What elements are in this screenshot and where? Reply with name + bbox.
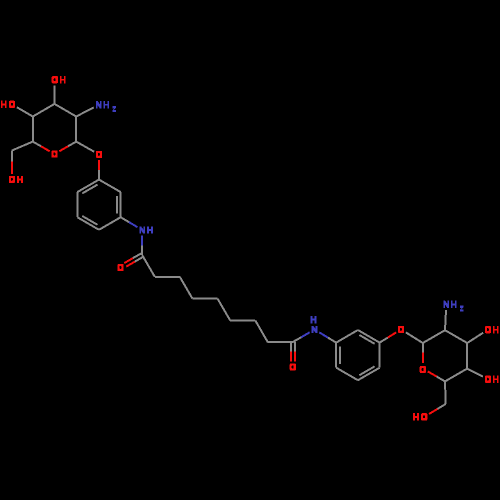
wire: sugar2 C2'-C3' (445, 330, 467, 343)
node: N of left NH2 (96, 101, 98, 108)
wire: C6-OH bond (11, 151, 13, 162)
wire: benzene2 edge b-ll (336, 368, 358, 381)
wire: benzene1 edge 5-6 (76, 192, 78, 217)
wire: C4-OH stereo bond (17, 107, 33, 116)
node: H of top-left OH (60, 76, 62, 83)
wire: benzene2 double bond n-ll (339, 346, 341, 364)
wire: NH-phenyl bond right (319, 332, 328, 337)
wire: benzene1 double bond 4-5 (82, 216, 97, 225)
wire: phenyl-O bond right (380, 338, 388, 343)
wire: benzene2 edge lr-b (358, 368, 380, 381)
wire: chain bond 8 (268, 341, 293, 343)
node: H of left NH2 (103, 101, 105, 108)
wire: chain bond 4 (192, 298, 217, 300)
node: O of right C3' OH (485, 326, 491, 333)
wire: C1-O glycosidic stereo bond (76, 142, 94, 152)
node: O of bottom-right HO (421, 413, 427, 420)
wire: sugar1 C2-C3 (55, 104, 77, 117)
wire: benzene1 edge 6-1 (77, 180, 99, 193)
wire: O-phenyl bond left (98, 160, 100, 170)
wire: NH-carbonyl bond (141, 236, 143, 246)
wire: C4'-OH stereo bond (467, 369, 483, 377)
node: O of top-left OH (52, 76, 58, 83)
node: H of bottom-left OH (17, 176, 19, 183)
wire: benzene1 edge 2-3 (120, 192, 122, 217)
node: aryl O right (398, 326, 404, 333)
wire: sugar1 ring O5-C1 (59, 146, 68, 151)
node: ring O of left sugar (51, 150, 57, 157)
wire: benzene1 double bond 6-1 (82, 185, 97, 194)
wire: sugar2 ring O5'-C5' (428, 371, 437, 376)
node: H of right amide NH (311, 316, 313, 323)
wire: O-C1' stereo bond (406, 332, 423, 343)
node: H of left anilide NH (147, 226, 149, 233)
node: H of left HO (1, 101, 3, 108)
wire: sugar1 C3-C4 (33, 104, 55, 117)
wire: carbonyl-NH bond right (293, 337, 301, 342)
wire: sugar1 ring O5-C5 (41, 146, 50, 151)
node: subscript 2 of right NH2 (460, 305, 464, 311)
node: H of right C3' OH (493, 326, 495, 333)
wire: C2'-NH2 stereo bond (445, 310, 446, 330)
node: N of left anilide NH (139, 226, 141, 233)
wire: chain bond 6 (230, 319, 255, 321)
wire: chain bond 1 (142, 255, 155, 277)
wire: C6'-OH bond (438, 404, 446, 409)
wire: sugar1 C1-C2 (75, 117, 77, 142)
wire: benzene1 double bond 2-3 (116, 196, 118, 214)
wire: benzene2 double bond b-lr (359, 366, 374, 375)
wire: sugar2 C1'-C2' (423, 330, 445, 343)
wire: C=O double bond right (290, 342, 292, 352)
wire: benzene1 edge 3-4 (99, 217, 121, 230)
node: left carbonyl O (117, 264, 123, 271)
wire: C3'-OH stereo bond (467, 333, 483, 343)
node: H of right NH2 (451, 301, 453, 308)
wire: chain bond 5 (218, 299, 231, 321)
wire: benzene2 edge t-o (358, 330, 380, 343)
node: O of right C4' OH (485, 376, 491, 383)
node: O of bottom-left OH (9, 176, 15, 183)
wire: C5'-C6' bond (444, 381, 447, 404)
wire: sugar2 C3'-C4' (466, 343, 468, 369)
node: H of right C4' OH (493, 376, 495, 383)
wire: benzene1 edge 1-2 (99, 180, 121, 193)
wire: C3-OH stereo bond (54, 85, 56, 104)
wire: benzene1 edge 4-5 (77, 217, 99, 230)
wire: benzene2 double bond o-t (359, 335, 374, 344)
node: right carbonyl O (290, 363, 296, 370)
node: ring O of right sugar (420, 366, 426, 373)
node: O of left HO (9, 101, 15, 108)
wire: chain bond 7 (255, 320, 268, 342)
wire: chain bond 2 (155, 276, 180, 278)
wire: C=O double bond left (133, 253, 141, 258)
wire: sugar1 C4-C5 (32, 117, 34, 142)
wire: benzene2 edge o-lr (379, 343, 381, 368)
node: N of right amide NH (312, 326, 314, 333)
wire: sugar2 ring O5'-C1' (422, 353, 424, 363)
wire: benzene2 edge n-t (336, 330, 358, 343)
node: H of bottom-right HO (413, 413, 415, 420)
node: glycosidic O left (96, 151, 102, 158)
wire: phenyl-NH bond (121, 217, 129, 222)
wire: sugar2 C4'-C5' (445, 369, 467, 382)
node: subscript 2 of left NH2 (112, 106, 116, 112)
wire: chain bond 3 (180, 277, 193, 299)
wire: C2-NH2 stereo bond (76, 107, 94, 116)
wire: C5-C6 bond (12, 142, 33, 151)
node: N of right NH2 (443, 301, 445, 308)
wire: benzene2 edge ll-n (335, 343, 337, 368)
